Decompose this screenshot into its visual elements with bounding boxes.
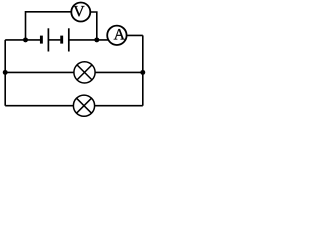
wire: left rail vertical	[4, 40, 6, 106]
junction dot: left rail lamp row (5.2,72.4)	[3, 70, 8, 75]
junction dot: right rail lamp row (142.8,72.4)	[140, 70, 145, 75]
wire: battery to ammeter (passes node at 96.8,40)	[69, 39, 108, 41]
wire: lamp row 1 left segment	[5, 71, 74, 73]
voltmeter U1 circle	[71, 3, 90, 22]
lamp L1 cross stroke 1	[77, 65, 92, 80]
lamp L2 cross stroke 1	[77, 98, 92, 113]
wire: bottom rail right segment	[95, 105, 143, 107]
junction dot: node voltmeter branch (96.8,40)	[94, 37, 99, 42]
lamp L1 circle	[74, 62, 95, 83]
wire: right rail vertical	[142, 35, 144, 105]
battery B1 cell2 positive long plate	[68, 28, 70, 51]
wire: between battery cells	[48, 39, 60, 41]
wire: voltmeter right lead down to node at (96.8,40)	[90, 12, 97, 40]
lamp L2 circle	[73, 95, 94, 116]
battery B1 cell2 negative short plate	[60, 36, 63, 44]
wire: bottom rail left segment	[5, 105, 73, 107]
lamp L1 cross stroke 2	[77, 65, 92, 80]
junction dot: node battery/left-branch (25.5,40)	[23, 37, 28, 42]
battery B1 cell1 negative short plate	[40, 36, 43, 44]
lamp L2 cross stroke 2	[77, 98, 92, 113]
wire: main top rail left section (left rail corner to battery)	[5, 39, 40, 41]
wire: left branch up from node at (25.5,40) and across top to voltmeter	[26, 12, 71, 40]
wire: lamp row 1 right segment	[95, 71, 143, 73]
svg-text:A: A	[114, 26, 126, 43]
battery B1 cell1 positive long plate	[47, 28, 49, 51]
ammeter U2 circle	[107, 26, 126, 45]
wire: ammeter right lead to right rail	[127, 34, 143, 36]
svg-text:V: V	[73, 4, 85, 21]
